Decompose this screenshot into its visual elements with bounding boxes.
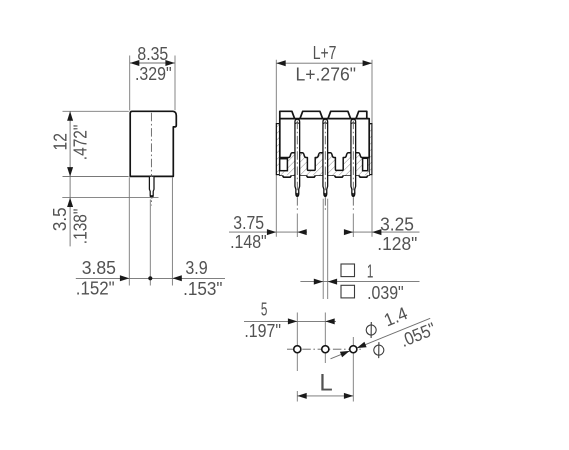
side view: extension line left (8.35 dim) bbox=[129, 56, 131, 111]
bottom view: horizontal centerline bbox=[287, 348, 362, 350]
dim 5/.197" line bbox=[244, 320, 336, 322]
svg-text:3.75: 3.75 bbox=[233, 213, 264, 233]
hole pin2 bbox=[322, 346, 329, 353]
svg-text:1: 1 bbox=[367, 261, 374, 281]
pin1 hole vertical ext (5 dim / crosshair) bbox=[296, 313, 298, 372]
pin 2 centerline bbox=[324, 121, 326, 212]
front view: left side wall (hatched) bbox=[276, 124, 279, 175]
front view: top latch bumps bbox=[280, 111, 295, 118]
pin1 hole ext to L dim bbox=[296, 391, 298, 402]
side view body outline bbox=[130, 111, 176, 176]
svg-text:.138": .138" bbox=[71, 209, 91, 245]
front view: right extension line (L+7, 3.25) bbox=[371, 60, 373, 237]
svg-text:3.9: 3.9 bbox=[185, 258, 207, 278]
extension line pin2 left edge bbox=[322, 199, 324, 299]
diameter symbol 2 bbox=[371, 341, 386, 358]
side view centerline bbox=[150, 113, 152, 206]
svg-text:8.35: 8.35 bbox=[137, 44, 168, 64]
dim 12/.472" + 3.5/.138" vertical line bbox=[69, 111, 71, 246]
svg-text:.329": .329" bbox=[135, 64, 172, 84]
extension line pin centre down bbox=[149, 200, 151, 286]
front view: pin 1 bbox=[295, 119, 300, 196]
dim 8.35/.329" line with arrows bbox=[130, 62, 175, 64]
dim node dot bbox=[148, 276, 152, 280]
front view: left extension line (L+7, 3.75) bbox=[275, 60, 277, 237]
dim L line bbox=[297, 395, 353, 397]
front view: pin 2 bbox=[323, 119, 328, 196]
front view: main body outline with feet bbox=[280, 119, 369, 178]
dim 1/.039" (pin width) line bbox=[300, 281, 419, 283]
side view: extension line right (8.35 dim) bbox=[174, 56, 176, 111]
pin 1 centerline bbox=[296, 121, 298, 211]
svg-text:.148": .148" bbox=[230, 232, 267, 252]
hole pin1 bbox=[294, 346, 301, 353]
svg-text:.152": .152" bbox=[76, 279, 115, 299]
svg-text:3.25: 3.25 bbox=[380, 214, 414, 234]
dim 3.85/3.9 line bbox=[76, 277, 225, 279]
svg-text:L+.276": L+.276" bbox=[296, 65, 357, 85]
svg-text:.197": .197" bbox=[244, 321, 281, 341]
extension line at body top (12 dim) bbox=[63, 110, 129, 112]
extension line pin1 centre bbox=[296, 214, 298, 238]
pin2 hole vertical ext (5 dim / crosshair) bbox=[324, 313, 326, 364]
extension line body right edge down bbox=[171, 177, 173, 285]
svg-text:3.85: 3.85 bbox=[82, 258, 116, 278]
dim L+7 line bbox=[276, 62, 372, 64]
extension line body left edge down bbox=[128, 177, 130, 285]
svg-text:12: 12 bbox=[50, 133, 70, 150]
extension line at pin tip (3.5 dim) bbox=[62, 197, 158, 199]
hole pin3 bbox=[350, 346, 357, 353]
svg-text:3.5: 3.5 bbox=[50, 207, 70, 231]
square symbol (.039") bbox=[341, 285, 355, 298]
dim 3.75/3.25 line bbox=[229, 231, 307, 233]
diameter symbol 1 bbox=[364, 321, 379, 338]
svg-text:L+7: L+7 bbox=[313, 43, 337, 63]
extension line pin3 centre bbox=[352, 214, 354, 238]
extension line at body bottom (12/3.5 dim) bbox=[63, 176, 129, 178]
svg-text:.472": .472" bbox=[71, 125, 91, 161]
svg-text:L: L bbox=[319, 369, 332, 396]
extension line pin2 right edge bbox=[327, 199, 329, 299]
pin3 hole vertical ext (L dim / crosshair) bbox=[352, 337, 354, 402]
svg-text:.128": .128" bbox=[377, 234, 417, 254]
scallop boundary line bbox=[280, 153, 369, 171]
left wall slot bbox=[280, 159, 288, 171]
front view: right side wall (hatched) bbox=[369, 124, 372, 175]
svg-text:5: 5 bbox=[261, 299, 268, 319]
side view solder pin bbox=[149, 177, 154, 198]
front view: sectioned floor (hatched, scalloped) bbox=[280, 153, 369, 176]
right wall slot bbox=[363, 158, 368, 170]
leader line for hole diameter bbox=[331, 318, 431, 359]
front view: pin 3 bbox=[351, 119, 356, 196]
svg-text:.153": .153" bbox=[183, 279, 222, 299]
pin 3 centerline bbox=[352, 121, 354, 211]
svg-text:.039": .039" bbox=[367, 283, 404, 303]
square symbol (1 mm) bbox=[341, 264, 355, 277]
